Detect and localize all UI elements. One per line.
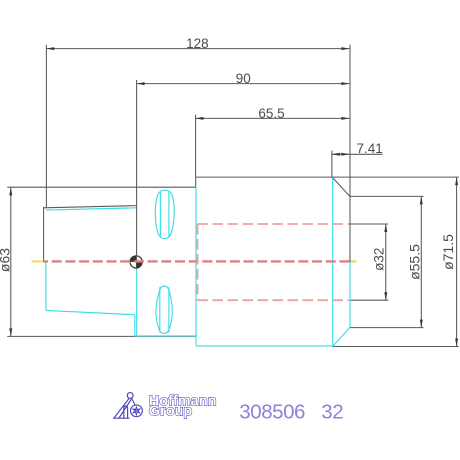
- logo wheel hub dot: [136, 410, 138, 412]
- logo gnome head: [127, 393, 133, 399]
- svg-text:Group: Group: [149, 404, 193, 420]
- svg-text:65.5: 65.5: [258, 106, 284, 121]
- bore hidden left dashed red: [197, 224, 199, 300]
- svg-text:ø32: ø32: [372, 248, 387, 271]
- collet taper top cyan: [46, 208, 136, 210]
- collet rear vertical cyan: [134, 315, 136, 336]
- bore hidden top dashed red: [198, 223, 350, 225]
- step vertical at x=195.8: [195, 177, 197, 187]
- dim 7.41: [332, 141, 383, 156]
- center mark circle: [130, 256, 142, 268]
- extension line of dim 65.5 at x=195.4: [195, 115, 197, 177]
- collet left face cyan lower: [45, 262, 47, 311]
- extension line of dim 7.41 at x=331.9: [331, 151, 333, 177]
- collet left face dark upper: [43, 207, 45, 262]
- slot lower cyan oval: [156, 286, 172, 333]
- dim dia32 right: [350, 224, 388, 300]
- svg-text:308506: 308506: [239, 401, 305, 424]
- collet taper bottom cyan: [46, 310, 135, 314]
- centerline yellow head right: [351, 260, 357, 262]
- logo gnome body left diagonal: [114, 399, 132, 419]
- dim 90: [137, 71, 350, 86]
- dim 65.5: [195, 106, 349, 121]
- dim dia71.5 right: [333, 177, 459, 346]
- logo gnome arm to wheel: [132, 399, 135, 405]
- centerline yellow head left: [32, 260, 44, 262]
- body top edge y=177.1 incl dia71.5 extension: [196, 176, 459, 178]
- svg-text:ø63: ø63: [0, 248, 13, 272]
- svg-text:128: 128: [186, 36, 209, 51]
- svg-text:90: 90: [236, 71, 251, 86]
- body bottom edge cyan: [196, 345, 333, 347]
- dim dia63 left: [0, 187, 13, 336]
- svg-text:32: 32: [321, 401, 343, 424]
- slot upper cyan oval: [155, 190, 174, 238]
- extension line left of dim 128 at x=46.3: [45, 45, 47, 208]
- chamfer edge vertical cyan x=332.6: [332, 178, 334, 347]
- svg-text:ø55.5: ø55.5: [406, 244, 422, 280]
- logo gnome boot: [124, 406, 128, 418]
- extension line of dim 90 at x=136.6 down to center mark: [136, 80, 138, 262]
- body left edge cyan: [195, 187, 197, 346]
- bottom chamfer cyan: [333, 328, 350, 347]
- centerline red dashed: [43, 260, 351, 262]
- svg-text:ø71.5: ø71.5: [440, 234, 456, 270]
- bore hidden bottom dashed red: [198, 299, 350, 301]
- top chamfer: [332, 177, 350, 196]
- middle section bottom edge cyan: [135, 335, 196, 337]
- logo gnome baseline: [113, 417, 130, 419]
- right face cyan lower: [349, 262, 351, 328]
- logo wheel: [131, 405, 143, 417]
- dia63 bottom edge + extension y=336.4: [7, 335, 196, 337]
- dia63 top edge + extension y=187.2: [7, 186, 196, 188]
- dim dia55.5 right: [350, 196, 424, 327]
- dim 128: [46, 36, 349, 51]
- common right extension line / right face upper at x=350: [349, 45, 351, 262]
- svg-text:7.41: 7.41: [357, 141, 383, 156]
- logo wheel star: [133, 407, 140, 415]
- middle boundary vertical cyan lower at x=136.7: [136, 262, 138, 336]
- collet taper top dark: [44, 206, 136, 208]
